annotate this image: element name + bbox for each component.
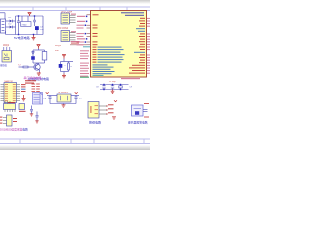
diode D1 xyxy=(10,20,13,23)
svg-text:7805: 7805 xyxy=(21,24,27,26)
MCU green row xyxy=(80,77,89,78)
DB9 pin number text block xyxy=(32,84,40,93)
cyan label under wire end xyxy=(83,46,91,47)
junction dots xyxy=(103,84,121,90)
svg-text:DS18B20温度采集电路: DS18B20温度采集电路 xyxy=(0,127,28,131)
power flag VCC xyxy=(28,13,32,16)
power flag VCC reset xyxy=(62,55,66,59)
pink designator text under MCU xyxy=(121,78,140,79)
crystal box xyxy=(119,86,122,88)
cap to ground 1 xyxy=(30,106,33,114)
MCU right pin names red rows xyxy=(129,18,145,74)
sheet border bottom lines xyxy=(0,139,150,144)
connector JP2 xyxy=(61,31,70,42)
resistor network RP1 xyxy=(4,104,16,110)
svg-text:JDQ1: JDQ1 xyxy=(3,44,10,47)
transistor Q1 xyxy=(34,64,40,72)
designator red xyxy=(8,102,15,103)
inner pin text rows xyxy=(95,105,99,114)
svg-text:JP1 CON4: JP1 CON4 xyxy=(61,11,73,13)
buzzer red labels xyxy=(144,103,149,104)
junction dots power xyxy=(18,15,35,35)
relay coil box xyxy=(33,52,47,65)
net labels right of U3 xyxy=(21,84,26,87)
svg-text:JP2 CON4: JP2 CON4 xyxy=(57,28,69,30)
U3 left pins xyxy=(1,85,5,101)
designator S1 red below xyxy=(19,111,26,112)
MCU right cyan rows xyxy=(134,28,145,53)
MCU left pin names upper (red pairs) xyxy=(93,14,99,45)
capacitor C1 xyxy=(17,16,20,35)
buzzer wires right xyxy=(143,109,148,111)
red flags left right xyxy=(46,92,78,94)
left label column pink upper xyxy=(77,25,85,46)
cap to ground 2 xyxy=(36,112,39,121)
red end marks xyxy=(106,105,108,115)
svg-text:接线出: 接线出 xyxy=(0,63,8,67)
net labels right of JP1 xyxy=(71,14,85,22)
connector JP1 xyxy=(61,13,70,24)
red designator above xyxy=(132,105,144,116)
buzzer inner element xyxy=(135,111,139,115)
ground 2 xyxy=(35,121,38,123)
svg-text:5V电源电路: 5V电源电路 xyxy=(14,35,30,40)
svg-text:JDQ2: JDQ2 xyxy=(55,45,62,47)
pins JP1 xyxy=(70,15,76,22)
U3 right pins xyxy=(17,85,21,101)
reset resistor R1 xyxy=(68,63,70,70)
IC U3 MAX232 yellow xyxy=(4,83,17,103)
top grey shade xyxy=(0,0,150,4)
right outside pink labels xyxy=(147,18,150,74)
base resistor R2 xyxy=(19,66,36,68)
ground serial xyxy=(22,95,26,101)
vertical designator strip inside xyxy=(90,106,91,113)
ground drive xyxy=(37,72,41,75)
ground 1 xyxy=(30,114,33,116)
cap plates xyxy=(102,86,114,88)
svg-text:MAX232: MAX232 xyxy=(5,80,14,83)
DB9 connector J1 outline xyxy=(33,93,43,105)
wire JP2 to MCU xyxy=(70,44,87,46)
MCU top-right inner text rows xyxy=(121,12,144,16)
svg-text:串口通信电路: 串口通信电路 xyxy=(24,75,42,80)
wire from transformer xyxy=(6,21,10,27)
svg-text:按键电路: 按键电路 xyxy=(89,120,101,125)
MCU bottom-left blue rows xyxy=(93,64,115,74)
power flag key xyxy=(114,100,117,102)
DB9 pin rows xyxy=(34,95,40,102)
ground reset xyxy=(62,74,66,78)
reset wires xyxy=(61,59,74,74)
transformer T1 xyxy=(0,19,5,33)
net labels right of JP2 xyxy=(71,31,86,42)
bottom grey shade xyxy=(0,145,150,150)
small block S1 xyxy=(19,104,25,110)
electrolytic C3 blue square xyxy=(35,26,39,30)
junction dot xyxy=(86,21,88,23)
junction dot xyxy=(86,16,88,18)
ground power xyxy=(32,35,36,40)
power flag VCC drive xyxy=(37,45,41,49)
yellow box xyxy=(57,94,71,102)
svg-text:RST: RST xyxy=(55,50,60,52)
pins below RP1 xyxy=(5,101,15,112)
ground crystal xyxy=(111,90,115,94)
regulator U2 7805 xyxy=(21,22,32,27)
junction dot xyxy=(86,38,88,40)
junction dots left of MCU xyxy=(85,25,87,43)
led DS1 blue square xyxy=(31,56,35,60)
left pin labels red xyxy=(0,117,2,124)
sheet border top lines xyxy=(0,7,150,11)
ground osc xyxy=(62,105,66,107)
relay JDQ yellow block xyxy=(2,47,12,62)
left label column pink lower xyxy=(80,50,89,76)
label on wire red xyxy=(71,43,79,44)
pins left xyxy=(3,118,7,124)
diode D2 xyxy=(10,26,13,29)
svg-text:Y1 30p: Y1 30p xyxy=(109,81,117,83)
right designator red xyxy=(13,118,17,119)
wires xyxy=(100,85,129,90)
ground key xyxy=(112,117,116,119)
MCU left long mixed rows middle xyxy=(93,47,125,63)
capacitor C2 xyxy=(33,16,36,26)
electrolytic cap reset blue square xyxy=(59,64,63,68)
svg-text:蜂鸣器报警电路: 蜂鸣器报警电路 xyxy=(128,121,148,125)
wire split xyxy=(33,49,45,52)
svg-text:Y2 12MHz: Y2 12MHz xyxy=(58,92,70,94)
MCU left pin stubs xyxy=(87,15,91,45)
pins JP2 xyxy=(70,33,76,40)
key pins xyxy=(99,106,107,114)
red text rows above DB9 xyxy=(25,80,36,83)
key labels red xyxy=(108,104,114,113)
U3 inner pin text rows xyxy=(5,84,16,101)
wires and caps xyxy=(47,96,79,105)
wire input xyxy=(0,13,5,19)
buzzer inner line xyxy=(134,108,142,110)
wire bus joining diodes xyxy=(6,16,43,35)
diode D6 vertical xyxy=(32,52,35,57)
